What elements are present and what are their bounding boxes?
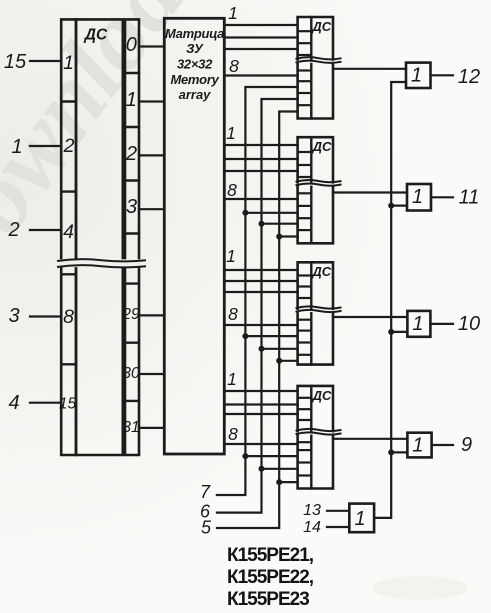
svg-text:ЗУ: ЗУ — [186, 41, 204, 56]
bus7 branch group2 — [245, 212, 297, 214]
pin 4 wire — [30, 402, 61, 404]
output strip divider 2/3 — [125, 179, 139, 181]
bus391 branch to U11 — [391, 205, 407, 207]
svg-text:8: 8 — [228, 304, 238, 324]
junction bus5 group4 — [276, 479, 282, 485]
group3 wire bit8 — [224, 324, 297, 326]
junction bus6 group3 — [259, 346, 265, 352]
bus5 branch group2 — [279, 235, 297, 237]
wire strip to matrix row30 — [139, 373, 164, 375]
wavy break group3 upper — [296, 306, 342, 308]
lower block group1 inner divider — [310, 64, 312, 119]
bus from pin 6 — [217, 99, 298, 513]
output strip divider below 3 — [125, 232, 139, 234]
DC group1 inner divider — [310, 17, 312, 60]
svg-text:5: 5 — [201, 518, 212, 538]
OR gate U11 output wire — [431, 196, 453, 198]
decoder DC1 input strip divider 1/2 — [61, 100, 76, 102]
lower block group2 inner divider — [310, 187, 312, 244]
svg-text:ДС: ДС — [311, 19, 331, 34]
output strip divider 0/1 — [125, 72, 139, 74]
DC group3 cell dividers — [298, 274, 312, 276]
watermark fragment bottom-right — [372, 576, 468, 600]
wire strip to matrix row1 — [139, 100, 164, 102]
group4 wire bit4 — [224, 413, 297, 415]
DC block group1 — [298, 17, 333, 60]
OR gate U12 output wire — [431, 74, 454, 76]
svg-text:8: 8 — [63, 306, 74, 328]
DC group4 cell dividers — [298, 397, 312, 399]
watermark Download diagonal — [0, 0, 234, 312]
svg-text:1: 1 — [354, 508, 365, 530]
svg-text:4: 4 — [63, 221, 74, 243]
decoder DC1 input strip lower part — [61, 269, 76, 456]
group3 output wire — [333, 316, 407, 318]
OR gate U9 — [407, 433, 431, 458]
svg-text:13: 13 — [303, 502, 321, 519]
svg-text:14: 14 — [303, 519, 321, 536]
wavy break group1 lower — [296, 61, 342, 63]
junction bus5 group2 — [276, 234, 282, 240]
junction bus391 U10 — [388, 329, 394, 335]
group1 output wire — [333, 68, 406, 70]
pin 14 wire — [327, 526, 349, 528]
group3 wire bit1 — [224, 269, 297, 271]
OR gate U9 output wire — [432, 444, 453, 446]
lower block group2 cell dividers — [298, 192, 312, 194]
wire strip to matrix row2 — [139, 154, 164, 156]
svg-text:1: 1 — [226, 246, 236, 266]
DC block group2 — [298, 137, 333, 182]
lower block group1 — [298, 64, 333, 119]
svg-text:8: 8 — [227, 180, 237, 200]
svg-text:3: 3 — [8, 305, 19, 327]
group2 wire bit1 — [224, 144, 297, 146]
OR gate U10 output wire — [430, 323, 453, 325]
svg-text:array: array — [179, 87, 212, 102]
wire strip to matrix row0 — [139, 45, 164, 47]
svg-text:32×32: 32×32 — [177, 57, 213, 72]
lower block group4 cell dividers — [298, 441, 312, 443]
svg-text:1: 1 — [412, 313, 423, 335]
pin 2 wire — [30, 229, 61, 231]
group4 wire bit2 — [224, 403, 297, 405]
bus6 branch group2 — [262, 223, 298, 225]
svg-text:ДС: ДС — [311, 264, 331, 279]
wire strip to matrix row31 — [139, 427, 164, 429]
svg-text:К155РЕ23: К155РЕ23 — [227, 589, 309, 610]
svg-text:8: 8 — [229, 56, 239, 76]
decoder DC1 output strip lower part — [125, 269, 139, 456]
decoder DC1 input strip divider 2/4 — [61, 190, 76, 192]
bus391 branch to U9 — [391, 451, 407, 453]
svg-text:4: 4 — [8, 392, 19, 414]
wire strip to matrix row29 — [139, 314, 164, 316]
bus7 branch group3 — [245, 335, 297, 337]
junction bus391 U9 — [388, 449, 394, 455]
lower block group3 cell dividers — [298, 319, 312, 321]
wavy break group2 lower — [296, 183, 342, 185]
feedback bus from U5 up to OR gates — [374, 82, 406, 518]
DC group4 inner divider — [310, 386, 312, 431]
svg-text:9: 9 — [461, 434, 472, 456]
wavy break left block upper line — [57, 259, 146, 261]
svg-text:ДС: ДС — [312, 139, 332, 154]
wavy break group3 lower — [296, 310, 342, 312]
DC block group3 — [298, 262, 333, 308]
group4 wire bit1 — [224, 390, 297, 392]
svg-text:15: 15 — [59, 396, 77, 413]
part numbers — [227, 545, 314, 610]
wavy break group4 lower — [296, 432, 342, 434]
bus391 branch to U10 — [391, 331, 407, 333]
group2 wire bit2 — [224, 158, 297, 160]
lower block group1 cell dividers — [298, 69, 312, 71]
group3 wire bit4 — [224, 291, 297, 293]
output strip divider 29/30 — [125, 342, 139, 344]
pin 3 wire — [30, 315, 61, 317]
svg-text:8: 8 — [228, 424, 238, 444]
wavy break left block lower line — [57, 265, 146, 267]
svg-text:29: 29 — [121, 306, 140, 323]
svg-text:1: 1 — [412, 435, 423, 457]
group1 wire bit8 — [224, 74, 297, 76]
svg-text:2: 2 — [7, 219, 19, 241]
wavy break group1 upper — [296, 57, 342, 59]
decoder DC1 input strip small divider below break — [61, 273, 76, 275]
svg-text:1: 1 — [63, 52, 74, 74]
bus7 branch group4 — [245, 455, 297, 457]
DC block group4 — [298, 386, 333, 431]
lower block group3 — [298, 313, 333, 364]
wire strip to matrix row3 — [139, 208, 164, 210]
svg-text:31: 31 — [122, 419, 139, 436]
svg-text:2: 2 — [63, 135, 75, 157]
group1 wire bit2 — [224, 36, 297, 38]
junction bus6 group4 — [259, 466, 265, 472]
bus6 branch group4 — [262, 468, 298, 470]
wavy break group2 upper — [296, 180, 342, 182]
memory matrix block — [164, 18, 224, 454]
DC group1 cell dividers — [298, 30, 312, 32]
svg-text:1: 1 — [11, 136, 22, 158]
svg-text:11: 11 — [459, 187, 480, 209]
svg-text:2: 2 — [125, 143, 137, 165]
group2 output wire — [333, 191, 407, 193]
svg-text:7: 7 — [200, 482, 211, 502]
svg-text:12: 12 — [458, 66, 480, 88]
junction bus7 group2 — [242, 210, 248, 216]
OR gate U11 — [407, 184, 431, 211]
svg-text:1: 1 — [126, 89, 137, 111]
junction bus391 U11 — [388, 203, 394, 209]
svg-text:1: 1 — [228, 3, 238, 23]
bus from pin 7 — [217, 87, 298, 495]
pin 13 wire — [327, 510, 349, 512]
bus from pin 5 — [217, 112, 298, 529]
svg-text:3: 3 — [126, 196, 137, 218]
svg-text:К155РЕ22,: К155РЕ22, — [227, 567, 314, 588]
lower block group4 — [298, 436, 333, 489]
decoder DC1 main block lower part — [76, 269, 123, 456]
svg-text:ДС: ДС — [312, 388, 332, 403]
lower block group3 inner divider — [310, 313, 312, 364]
DC group2 cell dividers — [298, 151, 312, 153]
decoder DC1 input strip divider 8/15 — [61, 363, 76, 365]
output strip divider small below break — [125, 282, 139, 284]
svg-text:30: 30 — [122, 365, 140, 382]
OR gate U10 — [407, 311, 430, 337]
lower block group2 — [298, 187, 333, 244]
svg-text:Memory: Memory — [170, 72, 219, 87]
group1 wire bit1 — [224, 24, 297, 26]
OR gate U12 — [406, 63, 431, 88]
junction bus6 group2 — [259, 221, 265, 227]
svg-text:1: 1 — [226, 123, 236, 143]
pin 1 wire — [30, 145, 61, 147]
junction bus7 group3 — [242, 333, 248, 339]
group1 wire bit4 — [224, 48, 297, 50]
output strip divider 1/2 — [125, 126, 139, 128]
svg-text:К155РЕ21,: К155РЕ21, — [227, 545, 314, 566]
decoder DC1 output strip upper part — [125, 19, 139, 258]
junction bus5 group3 — [276, 358, 282, 364]
lower block group4 inner divider — [310, 436, 312, 489]
svg-text:1: 1 — [411, 65, 422, 87]
svg-text:15: 15 — [4, 51, 27, 73]
bus5 branch group4 — [279, 481, 297, 483]
group2 wire bit8 — [224, 198, 297, 200]
DC group2 inner divider — [310, 137, 312, 182]
bus5 branch group3 — [279, 360, 297, 362]
DC group3 inner divider — [310, 262, 312, 308]
svg-text:10: 10 — [458, 313, 480, 335]
output strip divider 30/31 — [125, 400, 139, 402]
svg-text:0: 0 — [126, 34, 137, 56]
svg-text:Матрица: Матрица — [165, 26, 224, 41]
group2 wire bit4 — [224, 170, 297, 172]
bus6 branch group3 — [262, 348, 298, 350]
pin 15 wire — [30, 60, 61, 62]
group3 wire bit2 — [224, 280, 297, 282]
OR gate U5 (pins 13,14) — [349, 504, 374, 533]
group4 output wire — [333, 438, 407, 440]
group4 wire bit8 — [224, 443, 297, 445]
svg-text:1: 1 — [412, 186, 423, 208]
decoder DC1 input strip upper part — [61, 19, 76, 258]
decoder DC1 main block upper part — [76, 19, 123, 258]
svg-text:1: 1 — [227, 369, 237, 389]
junction bus7 group4 — [242, 453, 248, 459]
svg-text:ДС: ДС — [83, 27, 108, 44]
wavy break group4 upper — [296, 429, 342, 431]
